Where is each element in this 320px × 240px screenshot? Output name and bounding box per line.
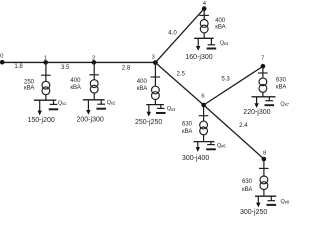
svg-text:2: 2 [92, 55, 95, 61]
svg-text:Qк3: Qк3 [167, 106, 176, 112]
svg-text:Qк4: Qк4 [220, 40, 229, 46]
svg-text:Qк8: Qк8 [281, 199, 290, 205]
svg-text:2.4: 2.4 [239, 122, 248, 129]
svg-text:4: 4 [203, 1, 207, 7]
svg-text:300-j250: 300-j250 [240, 209, 267, 216]
svg-text:кВА: кВА [24, 86, 34, 92]
svg-text:1.8: 1.8 [14, 63, 23, 70]
svg-text:150-j200: 150-j200 [28, 117, 55, 124]
svg-text:3: 3 [152, 54, 156, 60]
svg-text:Qк6: Qк6 [217, 143, 226, 149]
svg-text:250: 250 [24, 79, 35, 85]
svg-text:8: 8 [263, 151, 267, 157]
svg-text:6: 6 [201, 94, 205, 100]
svg-text:160-j300: 160-j300 [185, 54, 212, 61]
svg-text:0: 0 [0, 53, 4, 59]
svg-text:200-j300: 200-j300 [77, 117, 104, 124]
svg-text:Qк7: Qк7 [280, 102, 289, 108]
svg-text:2.8: 2.8 [122, 65, 131, 72]
svg-text:630: 630 [276, 77, 287, 83]
svg-text:4.0: 4.0 [168, 29, 177, 36]
svg-text:кВА: кВА [215, 24, 225, 30]
svg-text:кВА: кВА [276, 84, 286, 90]
svg-text:5.3: 5.3 [221, 76, 230, 83]
svg-text:кВА: кВА [137, 86, 147, 92]
svg-text:кВА: кВА [182, 129, 192, 135]
svg-text:400: 400 [70, 78, 81, 84]
svg-text:Qк1: Qк1 [58, 100, 67, 106]
svg-text:1: 1 [44, 55, 47, 61]
svg-text:630: 630 [182, 122, 193, 128]
svg-text:630: 630 [242, 179, 253, 185]
svg-text:кВА: кВА [70, 85, 80, 91]
svg-text:300-j400: 300-j400 [182, 155, 209, 162]
svg-text:220-j300: 220-j300 [243, 109, 270, 116]
svg-text:400: 400 [215, 18, 226, 24]
svg-text:кВА: кВА [242, 187, 252, 193]
svg-text:3.5: 3.5 [61, 64, 70, 71]
svg-text:250-j250: 250-j250 [135, 119, 162, 126]
svg-text:2.5: 2.5 [176, 71, 185, 78]
svg-text:Qк2: Qк2 [107, 100, 116, 106]
svg-text:400: 400 [137, 79, 148, 85]
svg-text:7: 7 [261, 56, 264, 62]
